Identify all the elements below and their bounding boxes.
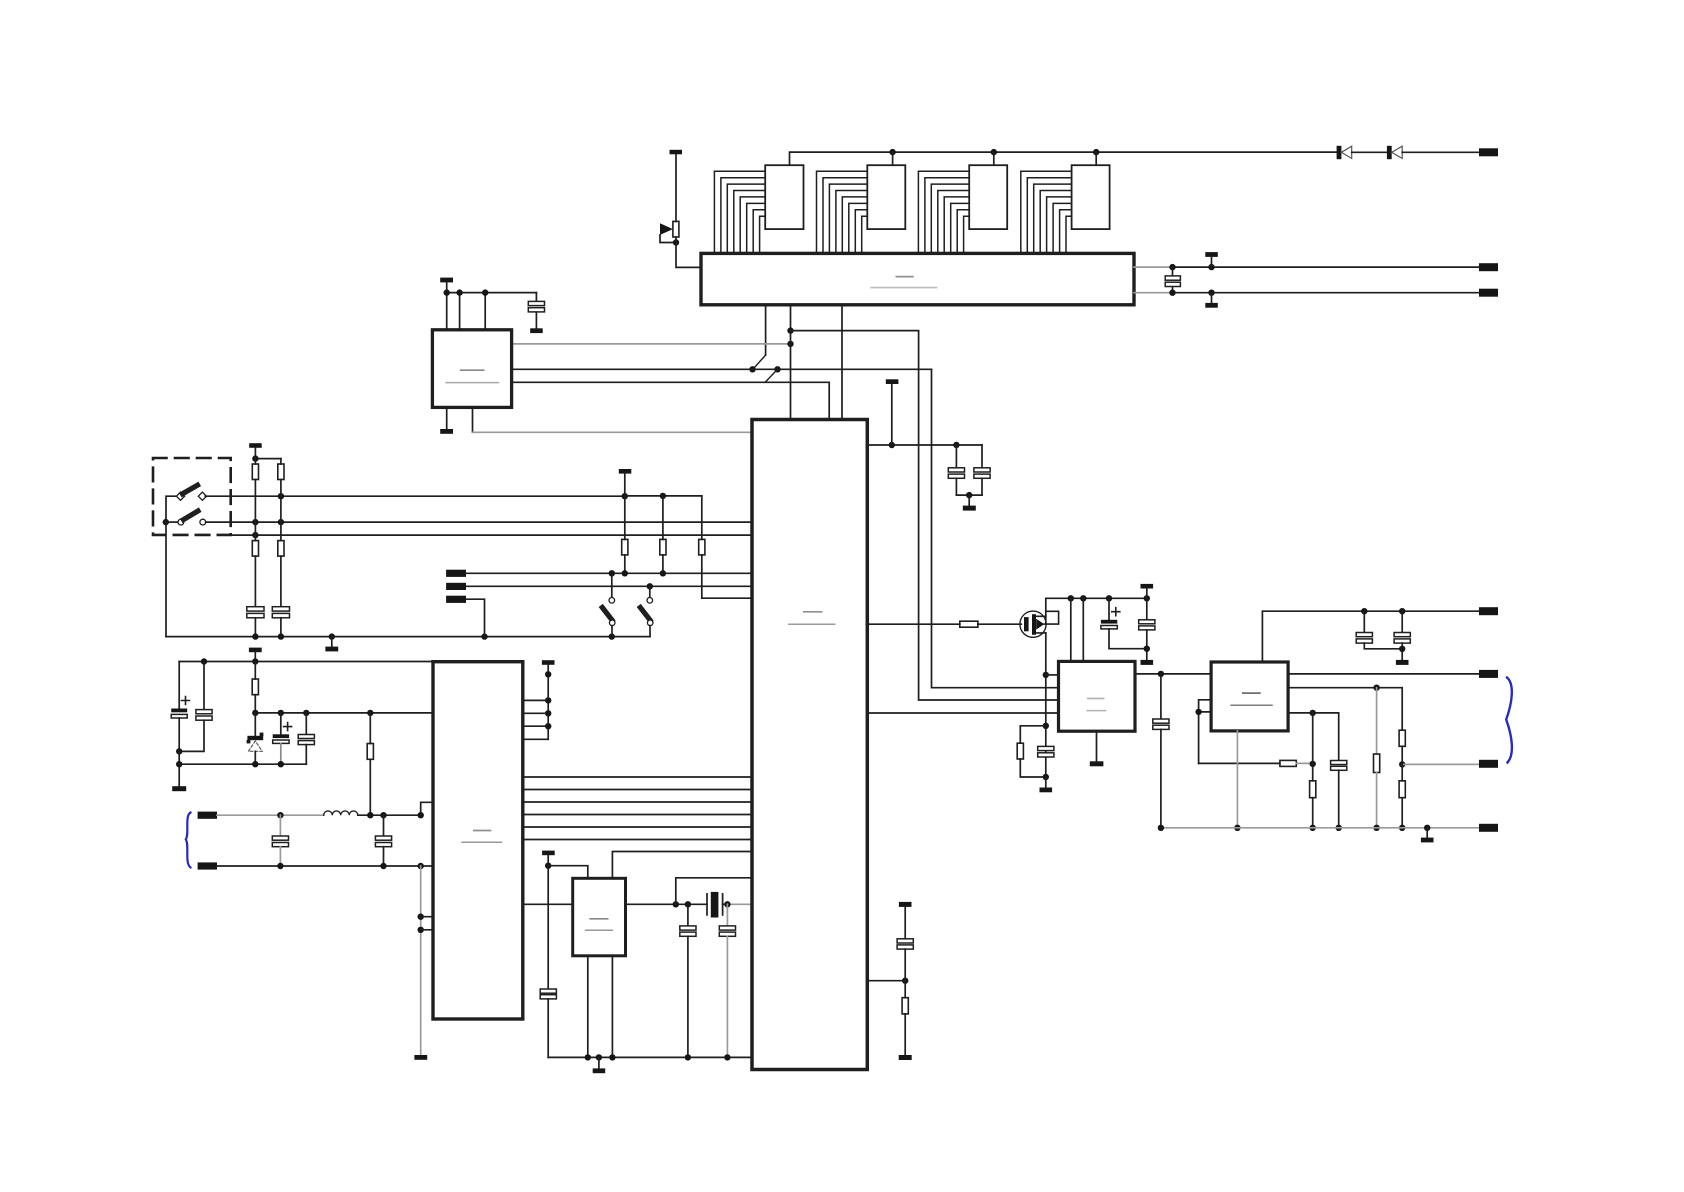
junction: [367, 812, 373, 818]
wire U4 vdd: [867, 444, 982, 446]
electrolytic C4: [171, 662, 189, 752]
junction: [1399, 608, 1405, 614]
wire U1 pin c: [523, 725, 548, 727]
wire COM1: [1134, 266, 1479, 268]
junction: [545, 863, 551, 869]
label line: [446, 382, 498, 384]
junction: [889, 149, 895, 155]
capacitor C18: [897, 907, 913, 981]
wire net SW-A: [205, 495, 625, 497]
junction: [660, 493, 666, 499]
IC U1: [433, 662, 523, 1019]
junction: [724, 1054, 730, 1060]
wire KEY1: [466, 572, 752, 574]
junction: [329, 633, 335, 639]
wire Q1 source: [1045, 633, 1047, 777]
wire net SW-C: [231, 534, 752, 536]
capacitor C5: [179, 662, 212, 752]
junction: [685, 1054, 691, 1060]
ground: [530, 328, 543, 333]
wire DS4 anode: [1095, 152, 1097, 165]
wire gray U3 pin1: [512, 343, 791, 345]
junction: [252, 658, 258, 664]
wire U10 to main IC 2: [841, 305, 843, 420]
junction: [278, 761, 284, 767]
wire U1 pin a: [523, 699, 548, 701]
junction: [277, 812, 283, 818]
ground: [325, 637, 338, 652]
junction: [278, 633, 284, 639]
wire net SEL2: [512, 382, 830, 419]
wire OSC1: [626, 903, 708, 905]
wire U5 gnd: [1090, 731, 1104, 766]
wire U6 vout top: [1262, 611, 1479, 662]
label line: [461, 369, 484, 371]
ground: [1205, 293, 1218, 308]
connector tab P4: [446, 570, 466, 577]
junction: [1144, 595, 1150, 601]
junction: [481, 633, 487, 639]
capacitor C9: [375, 815, 391, 866]
junction: [277, 863, 283, 869]
junction: [176, 748, 182, 754]
resistor R9: [367, 713, 373, 815]
wire: [358, 802, 433, 815]
junction: [1043, 672, 1049, 678]
junction: [1158, 825, 1164, 831]
junction: [660, 570, 666, 576]
junction: [303, 710, 309, 716]
connector tab P2: [1479, 263, 1498, 271]
wire KEY2: [466, 585, 752, 587]
junction: [673, 901, 679, 907]
supply rail V5: [1046, 597, 1147, 599]
junction: [1399, 646, 1405, 652]
wire SEL to U4: [932, 369, 1059, 687]
display controller U10: [701, 253, 1134, 304]
connector tab P12: [1479, 824, 1498, 832]
IC U5: [1059, 661, 1136, 731]
ground: [963, 495, 976, 511]
junction: [456, 289, 462, 295]
junction: [1080, 595, 1086, 601]
resistor R8: [252, 662, 258, 713]
power flag F2: [1205, 252, 1218, 267]
capacitor C22: [1331, 761, 1347, 828]
electrolytic C6: [273, 713, 292, 764]
switch S2a blade: [183, 485, 198, 494]
wire U1 to U2: [523, 903, 573, 905]
IC U3: [432, 330, 511, 408]
junction: [622, 570, 628, 576]
junction: [902, 978, 908, 984]
wire net SW-B: [206, 521, 752, 523]
junction: [201, 658, 207, 664]
electrolytic C15: [1101, 598, 1147, 648]
switch S2a terminal2: [198, 492, 206, 500]
junction: [1068, 595, 1074, 601]
resistor R3: [252, 541, 258, 607]
junction: [380, 863, 386, 869]
resistor R2: [278, 459, 284, 541]
wire U1 pin d: [523, 738, 548, 740]
power flag F6: [249, 648, 262, 662]
power flag F3: [440, 278, 453, 293]
junction: [278, 519, 284, 525]
supply wire VDISP: [790, 152, 1337, 165]
resistor R4: [278, 541, 284, 607]
junction: [545, 710, 551, 716]
ground rail: [166, 636, 650, 638]
switch blade S1a: [754, 355, 766, 369]
label line: [1231, 704, 1272, 706]
wire: [178, 751, 180, 786]
wire source to U5: [1046, 674, 1059, 676]
switch S2b blade: [184, 511, 199, 520]
connector tab P9: [1479, 607, 1498, 615]
wire U2 gnd pins: [588, 956, 613, 1058]
wire: [1352, 151, 1387, 153]
connector tab P1: [1479, 148, 1498, 156]
wire Q1 drain: [1045, 598, 1047, 624]
capacitor C11: [680, 904, 696, 1057]
resistor R16: [1310, 781, 1316, 828]
wire fb node: [1199, 762, 1280, 764]
zener diode ZD1: [247, 713, 264, 764]
ground: [172, 786, 186, 791]
connector tab P6: [446, 596, 466, 603]
wire U1 pin b: [523, 712, 548, 714]
wire COM2: [1134, 292, 1479, 294]
junction: [252, 532, 258, 538]
ground: [899, 1055, 912, 1060]
junction: [1310, 825, 1316, 831]
junction: [418, 812, 424, 818]
junction: [1093, 149, 1099, 155]
resistor R6: [660, 496, 666, 573]
wire U6 out mid: [1288, 673, 1479, 675]
label line: [462, 841, 502, 843]
junction: [418, 863, 424, 869]
junction: [787, 341, 793, 347]
wire U5 vout: [1135, 673, 1211, 675]
junction: [953, 442, 959, 448]
power flag F7: [542, 660, 555, 739]
ground rail right: [1161, 827, 1479, 829]
wire gate drive: [867, 623, 960, 625]
capacitor C21: [1394, 611, 1410, 660]
capacitor C8: [272, 815, 288, 866]
wire net SEL: [512, 368, 932, 370]
capacitor C7: [298, 713, 314, 764]
junction: [1399, 761, 1405, 767]
capacitor C17: [1038, 746, 1054, 757]
wire U5 vin pins: [1071, 598, 1084, 661]
junction: [252, 761, 258, 767]
resistor R7: [699, 496, 752, 598]
power flag F10: [1141, 584, 1154, 598]
brace output: [1506, 678, 1512, 763]
junction: [176, 761, 182, 767]
resistor R14: [1399, 730, 1405, 764]
junction: [1169, 264, 1175, 270]
supply wire: [625, 495, 702, 497]
ground: [1040, 777, 1053, 792]
wire fb out: [1402, 763, 1479, 765]
junction: [609, 633, 615, 639]
junction: [545, 671, 551, 677]
junction: [252, 455, 258, 461]
capacitor C19: [1153, 674, 1169, 828]
inductor L1: [324, 811, 358, 815]
power flag F1: [670, 150, 683, 222]
supply wire: [255, 458, 281, 460]
power flag F11: [899, 902, 912, 907]
junction: [609, 570, 615, 576]
junction: [1158, 671, 1164, 677]
junction: [482, 289, 488, 295]
wire DS2 anode: [892, 152, 894, 165]
wire U2 vcc: [548, 866, 588, 879]
resistor R17 gray: [1374, 688, 1380, 828]
display segment bus wires: [714, 171, 1071, 253]
junction: [609, 1054, 615, 1060]
connector tab P3: [1479, 289, 1498, 297]
label line: [1087, 710, 1105, 712]
LED display DS3: [969, 165, 1007, 229]
wire U4 to U5 pin3: [867, 712, 1058, 714]
label line: [804, 611, 822, 613]
junction: [278, 493, 284, 499]
resistor R15: [1399, 764, 1405, 827]
capacitor C10: [540, 989, 556, 1057]
wire to display controller: [676, 237, 701, 267]
junction: [622, 493, 628, 499]
capacitor C2: [247, 607, 264, 637]
capacitor C16: [1139, 598, 1155, 660]
switch blade S1b: [766, 369, 778, 381]
junction: [252, 710, 258, 716]
junction: [1144, 646, 1150, 652]
junction: [647, 583, 653, 589]
label line: [586, 929, 613, 931]
junction: [1373, 685, 1379, 691]
junction: [1310, 761, 1316, 767]
connector tab P10: [1479, 670, 1498, 678]
junction: [1106, 595, 1112, 601]
ground rail bottom: [548, 1056, 752, 1058]
node: [749, 366, 755, 372]
capacitor C20: [1356, 611, 1402, 649]
diode D2: [1387, 146, 1402, 159]
junction: [966, 492, 972, 498]
junction: [1043, 723, 1049, 729]
resistor R12: [902, 981, 908, 1055]
wire cap join: [956, 494, 982, 496]
bus wire 4: [523, 814, 752, 816]
junction: [1208, 264, 1214, 270]
supply wire: [447, 292, 537, 294]
junction: [889, 442, 895, 448]
wire LED cathode: [660, 235, 676, 243]
bus wire 2: [523, 789, 752, 791]
power flag F8: [542, 851, 555, 989]
wire OSC1 to main IC: [676, 878, 752, 905]
junction: [991, 149, 997, 155]
switch S2b terminal2: [200, 519, 206, 525]
wire OSC2 gray: [727, 903, 752, 905]
ground: [1396, 660, 1409, 665]
junction: [278, 710, 284, 716]
wire U2 reset out: [612, 852, 752, 879]
resistor R1: [252, 459, 258, 541]
junction: [252, 519, 258, 525]
LED display DS1: [765, 165, 803, 229]
junction: [1361, 608, 1367, 614]
LED display DS4: [1072, 165, 1110, 229]
label line: [789, 623, 835, 625]
IC U6: [1211, 662, 1288, 731]
ground: [593, 1057, 606, 1073]
wire: [1402, 151, 1479, 153]
junction: [1310, 710, 1316, 716]
connector tab P5: [446, 583, 466, 590]
LED display DS2: [867, 165, 905, 229]
switch S2a terminal: [176, 492, 184, 500]
power flag F5: [619, 469, 632, 496]
diode D1: [1337, 146, 1352, 159]
connector tab P7: [198, 812, 217, 819]
wire U6 sense: [1288, 688, 1402, 731]
junction: [1234, 825, 1240, 831]
switch box SW1: [153, 458, 231, 535]
junction: [1208, 290, 1214, 296]
wire input live: [217, 814, 324, 816]
capacitor C1: [528, 293, 544, 329]
junction: [685, 901, 691, 907]
wire sw2 stub: [166, 521, 178, 523]
junction: [418, 914, 424, 920]
brace input: [186, 813, 191, 868]
wire from U10 pin: [765, 305, 767, 355]
wire input neutral: [217, 865, 433, 867]
resistor R5: [622, 496, 628, 573]
junction: [380, 812, 386, 818]
ground: [440, 429, 453, 434]
wire to U4 input: [791, 331, 1059, 700]
connector tab P8: [198, 862, 217, 869]
LED indicator D20: [660, 223, 673, 235]
power flag F4: [249, 443, 262, 458]
switch S3: [602, 573, 615, 636]
wire U3 pin4 gray: [473, 407, 753, 432]
wire GND mid rail: [179, 763, 306, 765]
junction: [1043, 774, 1049, 780]
junction: [367, 710, 373, 716]
junction: [545, 723, 551, 729]
junction: [673, 239, 679, 245]
capacitor C13: [948, 445, 964, 495]
power flag F9: [886, 379, 899, 445]
junction: [787, 327, 793, 333]
node: [774, 366, 780, 372]
wire sense chain gray: [420, 866, 422, 1055]
connector tab P11: [1479, 760, 1498, 768]
junction: [1336, 825, 1342, 831]
wire U3 vcc pins: [447, 293, 486, 330]
transistor Q1: [1020, 611, 1059, 637]
crystal Y1: [707, 892, 727, 918]
junction: [1169, 290, 1175, 296]
rail VDD: [255, 712, 433, 714]
junction: [444, 289, 450, 295]
wire divider mid: [1312, 713, 1314, 781]
label line: [871, 287, 936, 289]
label line: [590, 918, 608, 920]
bus wire 3: [523, 801, 752, 803]
wire U6 adj pins: [1199, 700, 1212, 764]
resistor R10: [960, 621, 1022, 627]
label line: [474, 830, 491, 832]
wire sw1 left: [166, 496, 181, 636]
wire tab gnd: [466, 599, 485, 636]
junction: [1195, 709, 1201, 715]
label line: [1243, 692, 1260, 694]
label line: [896, 276, 912, 278]
wire U6 gnd gray: [1236, 731, 1238, 828]
switch S2b terminal: [178, 519, 184, 525]
junction: [418, 927, 424, 933]
junction: [252, 633, 258, 639]
capacitor C40: [1165, 267, 1180, 293]
supply rail VCC: [179, 661, 433, 663]
junction: [724, 901, 730, 907]
wire DS3 anode: [993, 152, 995, 165]
bus wire 6: [523, 839, 752, 841]
junction: [1424, 825, 1430, 831]
junction: [1373, 825, 1379, 831]
ground: [414, 1055, 427, 1060]
junction: [585, 1054, 591, 1060]
wire U4 adc pin: [867, 980, 905, 982]
wire U3 gnd: [446, 407, 448, 429]
resistor R11: [1017, 726, 1046, 777]
IC U4: [752, 420, 867, 1070]
capacitor C3: [272, 607, 289, 637]
wire U6 out2: [1288, 713, 1339, 761]
ground: [1421, 828, 1434, 843]
resistor R13: [1280, 760, 1313, 766]
switch S4: [640, 586, 653, 636]
capacitor C14: [974, 445, 990, 495]
bus wire 5: [523, 826, 752, 828]
bus wire 1: [523, 776, 752, 778]
label line: [1088, 698, 1104, 700]
ground: [1141, 660, 1154, 665]
junction: [163, 519, 169, 525]
junction: [1399, 825, 1405, 831]
junction: [545, 697, 551, 703]
resistor R20: [673, 221, 679, 237]
wire pin stubs: [421, 917, 433, 930]
junction: [596, 1054, 602, 1060]
IC U2: [573, 878, 626, 956]
capacitor C12: [719, 904, 735, 1057]
wire U10 to main IC: [790, 305, 792, 420]
